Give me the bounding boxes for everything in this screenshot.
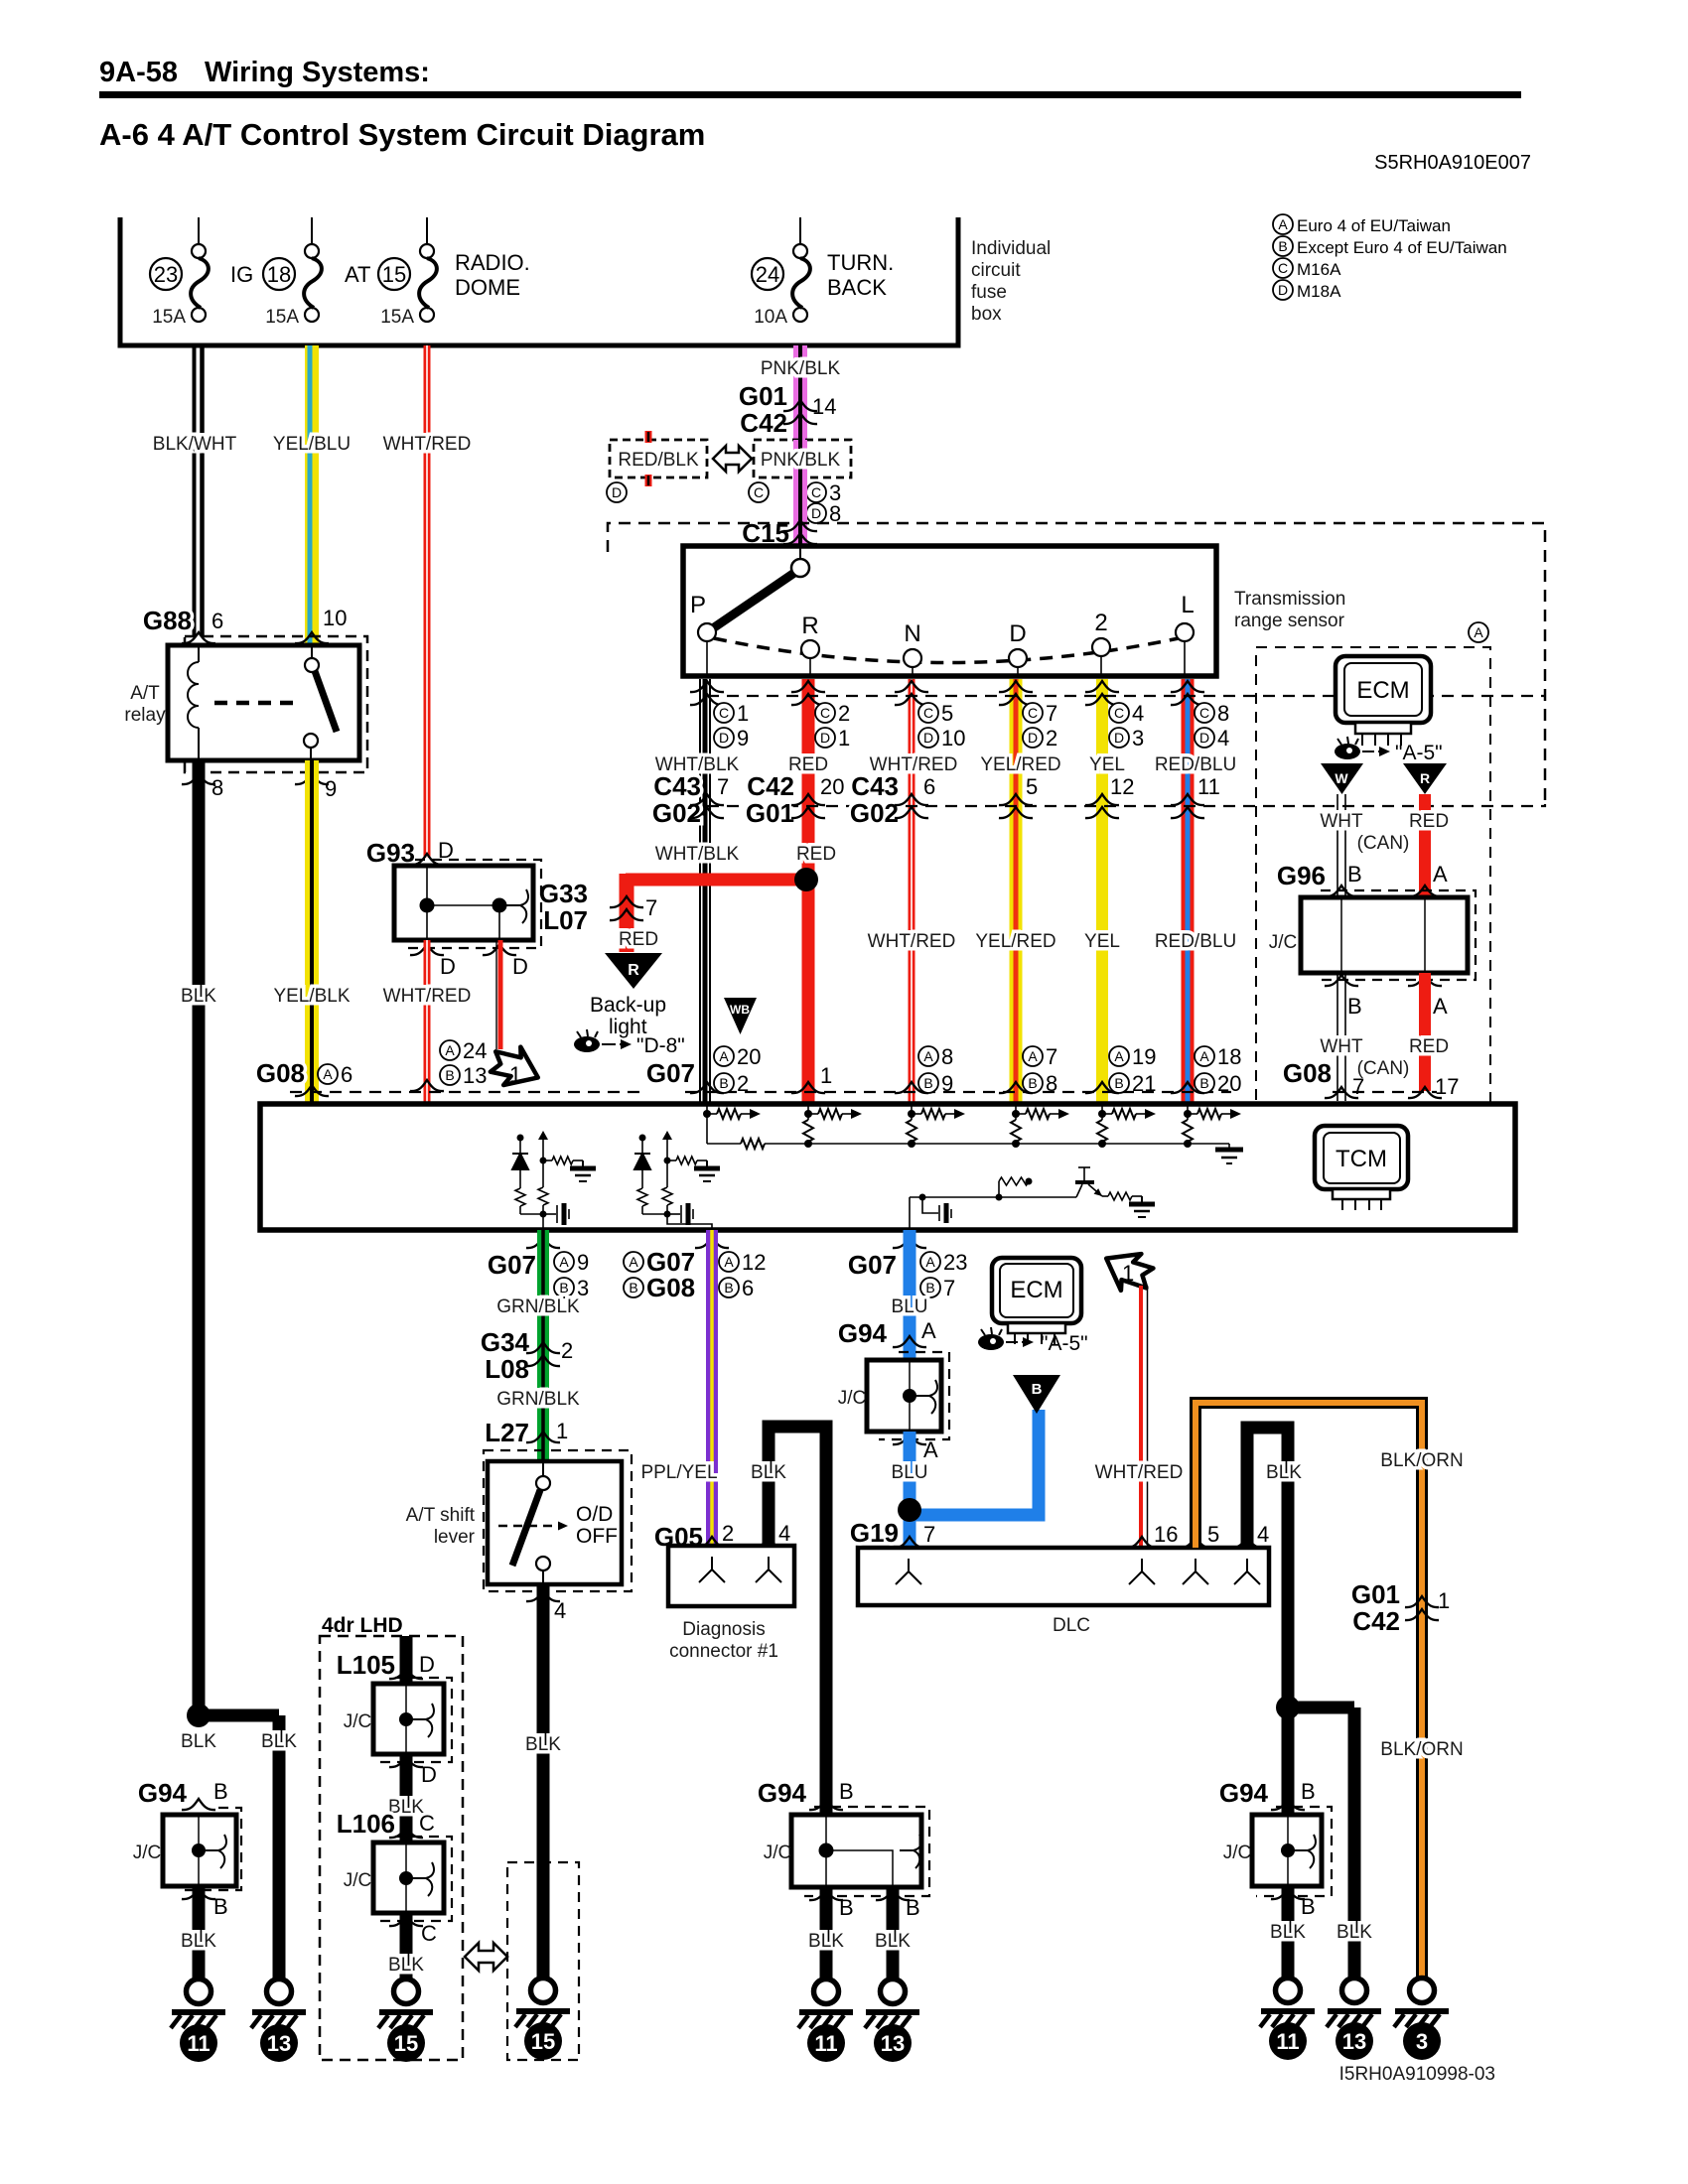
fuse 15 RADIO DOME 15A	[426, 217, 428, 245]
wire WHT/RED from fuse 15	[424, 345, 431, 858]
svg-text:B: B	[925, 1280, 934, 1296]
svg-text:WB: WB	[730, 1003, 750, 1017]
svg-text:WHT/BLK: WHT/BLK	[655, 844, 740, 865]
svg-text:N: N	[904, 620, 920, 647]
svg-text:19: 19	[1132, 1044, 1156, 1069]
svg-text:13: 13	[463, 1063, 487, 1088]
ground 15 (4dr LHD)	[394, 1979, 419, 2004]
svg-text:9A-58: 9A-58	[99, 57, 178, 88]
svg-text:"D-8": "D-8"	[636, 1034, 685, 1057]
svg-text:D: D	[419, 1652, 435, 1677]
svg-text:G33: G33	[539, 879, 588, 908]
svg-text:11: 11	[1276, 2029, 1299, 2054]
svg-text:15A: 15A	[380, 307, 414, 328]
svg-text:A: A	[1433, 862, 1448, 887]
ground number 15	[524, 2022, 562, 2060]
svg-text:12: 12	[742, 1250, 766, 1275]
svg-text:8: 8	[211, 775, 223, 800]
svg-text:BLK: BLK	[181, 1931, 216, 1952]
ground 13 (left)	[267, 1979, 292, 2004]
svg-text:PNK/BLK: PNK/BLK	[761, 358, 841, 379]
wire WHT/RED below G93	[424, 940, 431, 1104]
svg-text:RED/BLU: RED/BLU	[1155, 754, 1236, 775]
svg-text:8: 8	[941, 1044, 953, 1069]
svg-text:I5RH0A910998-03: I5RH0A910998-03	[1339, 2064, 1495, 2085]
svg-text:6: 6	[742, 1276, 754, 1300]
svg-text:G08: G08	[256, 1058, 305, 1088]
svg-text:DOME: DOME	[455, 275, 520, 300]
svg-text:Back-up: Back-up	[590, 994, 666, 1017]
svg-text:D: D	[1009, 620, 1026, 647]
svg-text:J/C: J/C	[133, 1843, 162, 1863]
wire BLK between L105 and L106	[400, 1754, 413, 1843]
svg-text:J/C: J/C	[838, 1388, 867, 1409]
svg-text:OFF: OFF	[576, 1525, 618, 1548]
svg-text:10: 10	[323, 606, 347, 630]
svg-text:BLU: BLU	[892, 1297, 928, 1317]
svg-text:7: 7	[1046, 701, 1057, 726]
svg-text:1: 1	[1438, 1588, 1450, 1613]
svg-text:A: A	[724, 1254, 734, 1270]
svg-text:PPL/YEL: PPL/YEL	[640, 1462, 717, 1483]
svg-text:O/D: O/D	[576, 1503, 613, 1526]
svg-text:B: B	[559, 1280, 568, 1296]
svg-text:D: D	[421, 1762, 437, 1787]
svg-text:M16A: M16A	[1297, 260, 1341, 279]
G07 pins A8/B9	[895, 1082, 928, 1093]
svg-text:10A: 10A	[754, 307, 787, 328]
svg-text:9: 9	[325, 776, 337, 801]
svg-text:BLK/ORN: BLK/ORN	[1380, 1450, 1463, 1471]
svg-text:A: A	[1199, 1048, 1209, 1064]
svg-text:B: B	[923, 1075, 932, 1091]
wire BLK below G94 right	[1282, 1886, 1295, 1978]
svg-text:4: 4	[1132, 701, 1144, 726]
svg-text:D: D	[1028, 730, 1038, 746]
svg-text:C: C	[923, 705, 933, 721]
svg-text:24: 24	[756, 262, 779, 287]
svg-text:G08: G08	[1283, 1058, 1332, 1088]
svg-text:11: 11	[187, 2031, 210, 2056]
connector pin 5 (YEL/RED)	[999, 794, 1033, 805]
svg-text:Individual: Individual	[971, 238, 1051, 259]
svg-text:DLC: DLC	[1053, 1615, 1090, 1636]
TCM pull resistors	[803, 1114, 1193, 1142]
off-page arrow 1 (to DLC)	[1096, 1241, 1158, 1299]
svg-text:A-6 4 A/T Control System Circu: A-6 4 A/T Control System Circuit Diagram	[99, 117, 705, 152]
svg-text:GRN/BLK: GRN/BLK	[496, 1389, 580, 1410]
TCM input network	[703, 1104, 1241, 1119]
svg-text:9: 9	[941, 1071, 953, 1096]
svg-text:20: 20	[737, 1044, 761, 1069]
DLC pin 16	[1125, 1537, 1159, 1548]
svg-text:C: C	[1199, 705, 1209, 721]
svg-text:BLK: BLK	[1266, 1462, 1302, 1483]
ground 11 (left)	[187, 1979, 211, 2004]
connector G08 row (left)	[290, 1091, 643, 1093]
svg-text:3: 3	[1416, 2029, 1428, 2054]
svg-text:RED: RED	[619, 929, 658, 950]
svg-text:L105: L105	[337, 1650, 395, 1680]
B triangle	[1013, 1375, 1060, 1414]
svg-text:2: 2	[1046, 726, 1057, 751]
svg-text:RED: RED	[1409, 1036, 1449, 1057]
sensor pins C7/D2	[999, 681, 1033, 692]
connector pin 12 (YEL)	[1085, 794, 1119, 805]
svg-text:4: 4	[554, 1598, 566, 1623]
sensor pins C8/D4	[1171, 681, 1204, 692]
svg-text:B: B	[839, 1779, 854, 1804]
ECM (top right)	[1336, 656, 1431, 723]
svg-text:13: 13	[881, 2031, 905, 2056]
svg-text:D: D	[1114, 730, 1124, 746]
svg-text:G88: G88	[143, 606, 192, 635]
svg-text:L27: L27	[485, 1418, 529, 1447]
svg-text:A: A	[1278, 216, 1288, 232]
svg-text:C42: C42	[1352, 1606, 1400, 1636]
svg-text:A: A	[445, 1042, 455, 1058]
DLC pin 4	[1230, 1537, 1264, 1548]
svg-text:D: D	[512, 954, 528, 979]
svg-text:C: C	[421, 1921, 437, 1946]
svg-text:6: 6	[341, 1062, 352, 1087]
Euro4 dashed option box A	[1256, 647, 1490, 1111]
svg-text:connector #1: connector #1	[669, 1641, 778, 1662]
ground 13 (right)	[1342, 1979, 1367, 2003]
junction node on RED	[794, 868, 818, 891]
wire PNK/BLK to C15	[793, 478, 807, 548]
svg-text:ECM: ECM	[1010, 1277, 1062, 1303]
svg-text:1: 1	[838, 726, 850, 751]
svg-text:GRN/BLK: GRN/BLK	[496, 1297, 580, 1317]
svg-text:BLK: BLK	[388, 1955, 424, 1976]
svg-text:D: D	[1199, 730, 1209, 746]
ground 3 (BLK/ORN)	[1410, 1979, 1435, 2003]
svg-text:D: D	[440, 954, 456, 979]
shift lever pin 4	[526, 1590, 560, 1601]
svg-text:G07: G07	[488, 1250, 536, 1280]
svg-text:7: 7	[717, 774, 729, 799]
wires BLK to grounds (middle)	[820, 1887, 833, 1979]
svg-text:RED/BLK: RED/BLK	[618, 450, 699, 471]
svg-text:4: 4	[778, 1521, 790, 1546]
see A-5 note (top)	[1335, 744, 1360, 759]
back-up light R triangle	[605, 953, 662, 989]
wire WHT (CAN) upper	[1336, 794, 1338, 897]
svg-text:B: B	[1199, 1075, 1208, 1091]
wire BLK/WHT from fuse 23	[193, 345, 197, 636]
wire BLK into L105	[400, 1636, 413, 1688]
svg-text:lever: lever	[434, 1527, 476, 1548]
svg-text:D: D	[1278, 282, 1288, 298]
svg-text:8: 8	[1217, 701, 1229, 726]
svg-text:(CAN): (CAN)	[1357, 833, 1410, 854]
svg-text:relay: relay	[124, 705, 166, 726]
svg-text:RED/BLU: RED/BLU	[1155, 931, 1236, 952]
svg-text:YEL/BLK: YEL/BLK	[273, 986, 350, 1007]
svg-text:L07: L07	[543, 905, 588, 935]
svg-text:B: B	[1301, 1894, 1316, 1919]
svg-text:B: B	[724, 1280, 733, 1296]
svg-text:2: 2	[1094, 610, 1107, 636]
svg-text:11: 11	[814, 2031, 837, 2056]
svg-text:5: 5	[941, 701, 953, 726]
svg-text:G19: G19	[850, 1518, 899, 1548]
svg-text:B: B	[1114, 1075, 1123, 1091]
A/T shift lever dashed box	[484, 1450, 632, 1591]
svg-text:C: C	[419, 1811, 435, 1836]
header rule	[99, 91, 1521, 98]
svg-text:B: B	[839, 1895, 854, 1920]
svg-text:D: D	[811, 505, 821, 521]
relay switch	[311, 645, 313, 658]
fuse 18 AT 15A	[311, 217, 313, 245]
svg-text:B: B	[1347, 994, 1362, 1019]
off-page arrow 1	[486, 1039, 545, 1095]
diagnosis connector #1 box	[668, 1546, 794, 1606]
TCM label	[1315, 1126, 1408, 1189]
A/T relay box	[168, 645, 359, 760]
svg-text:B: B	[213, 1894, 228, 1919]
svg-text:J/C: J/C	[1223, 1843, 1252, 1863]
svg-text:C: C	[719, 705, 729, 721]
svg-text:5: 5	[1026, 774, 1038, 799]
wire BLK/ORN loop	[1196, 1403, 1422, 1978]
svg-text:G02: G02	[652, 798, 701, 828]
BLK junction node (left)	[187, 1704, 211, 1727]
svg-text:L08: L08	[485, 1354, 529, 1384]
svg-text:7: 7	[1046, 1044, 1057, 1069]
svg-text:A: A	[1474, 624, 1483, 640]
selector dashed arc	[714, 638, 1179, 663]
G94 middle output pins B,B	[809, 1889, 843, 1900]
svg-text:C: C	[754, 484, 764, 500]
svg-text:G01: G01	[1351, 1579, 1400, 1609]
wire RED from R	[802, 679, 815, 1104]
svg-text:2: 2	[838, 701, 850, 726]
sensor pins C4/D3	[1085, 681, 1119, 692]
svg-text:YEL/BLU: YEL/BLU	[273, 434, 351, 455]
svg-text:Transmission: Transmission	[1234, 589, 1345, 610]
svg-text:3: 3	[1132, 726, 1144, 751]
svg-text:7: 7	[923, 1522, 935, 1547]
svg-text:4: 4	[1217, 726, 1229, 751]
G07 pins A7/B8	[999, 1082, 1033, 1093]
svg-text:7: 7	[943, 1276, 955, 1300]
G07 pins A19/B21	[1085, 1082, 1119, 1093]
svg-text:AT: AT	[345, 262, 370, 287]
svg-text:B: B	[1278, 238, 1287, 254]
svg-text:12: 12	[1110, 774, 1134, 799]
svg-text:C: C	[1278, 260, 1288, 276]
svg-text:M18A: M18A	[1297, 282, 1341, 301]
wire RED/BLU from L	[1182, 679, 1195, 1104]
svg-text:D: D	[719, 730, 729, 746]
svg-text:A/T shift: A/T shift	[406, 1505, 476, 1526]
contact N	[912, 658, 914, 676]
svg-text:Except Euro 4 of EU/Taiwan: Except Euro 4 of EU/Taiwan	[1297, 238, 1507, 257]
svg-text:"A-5": "A-5"	[1041, 1332, 1088, 1355]
svg-text:17: 17	[1435, 1074, 1459, 1099]
fuse 23 IG 15A	[198, 217, 200, 245]
wire BLU upper	[904, 1230, 916, 1360]
svg-text:20: 20	[1217, 1071, 1241, 1096]
equivalence arrow	[465, 1943, 507, 1971]
svg-text:A: A	[921, 1318, 936, 1343]
svg-text:S5RH0A910E007: S5RH0A910E007	[1374, 152, 1531, 174]
svg-text:15: 15	[382, 262, 406, 287]
contact P	[706, 632, 708, 676]
pin note C3 D8	[806, 482, 826, 502]
svg-text:D: D	[612, 484, 622, 500]
svg-text:C: C	[820, 705, 830, 721]
contact R	[809, 649, 811, 676]
svg-text:6: 6	[923, 774, 935, 799]
svg-text:BLK: BLK	[181, 1731, 216, 1752]
wire BLK from relay pin 8	[193, 760, 206, 1709]
ECM (bottom)	[992, 1258, 1081, 1323]
svg-text:BLU: BLU	[892, 1462, 928, 1483]
svg-text:"A-5": "A-5"	[1395, 742, 1443, 764]
svg-text:J/C: J/C	[344, 1870, 372, 1891]
wire BLK below G94 left	[193, 1886, 206, 1979]
svg-text:WHT/RED: WHT/RED	[383, 986, 472, 1007]
svg-text:B: B	[1028, 1075, 1037, 1091]
wire WHT/BLK from P	[699, 679, 701, 1104]
see A-5 note (bottom)	[978, 1334, 1004, 1350]
wire YEL/BLU from fuse 18	[305, 345, 319, 645]
svg-text:A: A	[1433, 994, 1448, 1019]
legend note B	[1273, 236, 1293, 256]
sensor connector dashed row	[707, 695, 1545, 697]
TCM output transistor circuit (diagnosis)	[909, 1197, 911, 1230]
svg-text:W: W	[1335, 770, 1348, 786]
svg-text:WHT/RED: WHT/RED	[1095, 1462, 1184, 1483]
legend note C	[1273, 258, 1293, 278]
svg-text:21: 21	[1132, 1071, 1156, 1096]
svg-text:WHT/RED: WHT/RED	[383, 434, 472, 455]
svg-text:A: A	[1028, 1048, 1038, 1064]
svg-text:1: 1	[820, 1063, 832, 1088]
svg-text:1: 1	[509, 1062, 521, 1087]
svg-text:BLK: BLK	[261, 1731, 297, 1752]
TCM output circuit (O/D switch)	[639, 1135, 646, 1142]
svg-text:B: B	[1032, 1381, 1043, 1398]
svg-text:7: 7	[1352, 1074, 1364, 1099]
wire YEL/BLK from relay pin 9	[305, 760, 319, 1104]
svg-text:B: B	[719, 1075, 728, 1091]
wire RED to arrow 1	[495, 940, 497, 1049]
svg-text:Euro 4 of EU/Taiwan: Euro 4 of EU/Taiwan	[1297, 216, 1451, 235]
svg-text:23: 23	[943, 1250, 967, 1275]
sensor pins C2/D1	[791, 681, 825, 692]
legend note A	[1273, 214, 1293, 234]
legend note D	[1273, 280, 1293, 300]
svg-text:A: A	[719, 1048, 729, 1064]
svg-text:8: 8	[1046, 1071, 1057, 1096]
svg-text:13: 13	[267, 2031, 291, 2056]
ground (shift lever)	[531, 1979, 556, 2003]
junction connector J/C (G96)	[1321, 890, 1476, 980]
BLU junction node	[910, 1410, 1039, 1515]
svg-text:A: A	[925, 1254, 935, 1270]
svg-text:A: A	[923, 1437, 938, 1462]
O/D OFF dashed arrow	[498, 1525, 556, 1528]
selector arm	[707, 573, 794, 632]
svg-text:G94: G94	[1219, 1778, 1269, 1808]
WB triangle (WHT/BLK marker)	[724, 998, 757, 1034]
svg-text:BLK: BLK	[751, 1462, 786, 1483]
relay coil	[198, 645, 200, 662]
svg-text:D: D	[923, 730, 933, 746]
svg-text:C42: C42	[740, 408, 787, 438]
TCM output circuit (shift switch)	[517, 1135, 524, 1142]
svg-text:G07: G07	[848, 1250, 897, 1280]
svg-text:G01: G01	[739, 381, 787, 411]
svg-text:BLK: BLK	[525, 1734, 561, 1755]
svg-text:10: 10	[941, 726, 965, 751]
contact 2	[1100, 647, 1102, 676]
DLC pin 5	[1179, 1537, 1212, 1548]
ground 11 (right)	[1276, 1979, 1301, 2003]
svg-text:18: 18	[267, 262, 291, 287]
wire RED (CAN) upper	[1419, 794, 1431, 897]
svg-text:BLK/ORN: BLK/ORN	[1380, 1739, 1463, 1760]
selector pivot	[799, 548, 801, 560]
wire WHT/RED to DLC	[1139, 1286, 1143, 1548]
A/T shift lever box	[488, 1461, 622, 1584]
wire RED (CAN) lower	[1419, 973, 1431, 1091]
svg-text:B: B	[1301, 1779, 1316, 1804]
svg-text:G34: G34	[481, 1327, 530, 1357]
svg-text:(CAN): (CAN)	[1357, 1058, 1410, 1079]
TCM box	[260, 1104, 1515, 1230]
svg-text:BLK: BLK	[1270, 1922, 1306, 1943]
A/T relay dashed box	[185, 636, 367, 772]
svg-text:16: 16	[1154, 1522, 1178, 1547]
svg-text:G01: G01	[746, 798, 794, 828]
svg-text:box: box	[971, 304, 1002, 325]
wire BLK from G05 pin 4 up and over	[769, 1427, 826, 1815]
svg-text:G07: G07	[646, 1058, 695, 1088]
svg-text:1: 1	[737, 701, 749, 726]
ground (middle left)	[814, 1979, 839, 2004]
G07 pins A20/B2	[690, 1082, 724, 1093]
TCM common rail to ground	[706, 1114, 708, 1144]
svg-text:C: C	[1028, 705, 1038, 721]
svg-text:fuse: fuse	[971, 282, 1007, 303]
wire YEL/RED from D	[1010, 679, 1023, 1104]
svg-text:R: R	[628, 962, 639, 979]
wire WHT/RED from N	[909, 679, 915, 1104]
svg-text:A: A	[323, 1066, 333, 1082]
svg-text:2: 2	[737, 1071, 749, 1096]
individual circuit fuse box outline	[120, 217, 958, 345]
svg-text:B: B	[1347, 862, 1362, 887]
option box PNK/BLK (C)	[754, 440, 851, 478]
svg-text:G96: G96	[1277, 861, 1326, 890]
dashed box around ground 15	[507, 1862, 579, 2060]
connector A:G07 B:G08 pins A12/B6	[624, 1252, 643, 1272]
transmission range sensor dashed connector box	[608, 523, 1545, 804]
svg-text:R: R	[1420, 770, 1430, 786]
svg-text:TURN.: TURN.	[827, 250, 894, 275]
svg-text:YEL/RED: YEL/RED	[975, 931, 1055, 952]
svg-text:15A: 15A	[152, 307, 186, 328]
svg-text:TCM: TCM	[1336, 1146, 1387, 1172]
svg-text:C43: C43	[851, 771, 899, 801]
svg-text:G08: G08	[646, 1273, 695, 1302]
